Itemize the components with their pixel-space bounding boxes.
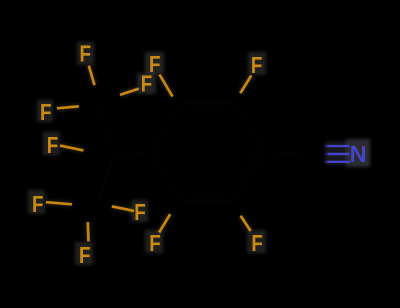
bond isopropyl C to upper CF3 C [98, 104, 114, 156]
nitrile triple bond, blue half: dark tapered left tips [325, 146, 329, 162]
svg-text:F: F [79, 41, 91, 67]
stub F4 (upper CF3 left F) [57, 106, 79, 108]
carbon skeleton (black on black, invisible): benzene ring [98, 103, 306, 204]
svg-text:F: F [251, 230, 263, 256]
svg-text:F: F [141, 71, 153, 97]
stub F5 (isopropyl C F) [60, 146, 83, 151]
svg-text:F: F [47, 132, 59, 158]
orange F-bond half stubs [46, 66, 251, 242]
faint halos under orange stubs (jpeg bloom) [46, 66, 251, 242]
bond ring to nitrile C [264, 152, 306, 154]
halo glow blocks (jpeg artifacts) [28, 42, 370, 265]
svg-text:F: F [149, 230, 161, 256]
svg-text:F: F [134, 199, 146, 225]
stub F1 (top CF3 F) [89, 66, 95, 86]
bond ring to isopropyl C [114, 152, 152, 156]
bond isopropyl C to lower CF3 C [98, 156, 114, 204]
svg-text:F: F [40, 99, 52, 125]
stub F9 (ring bottom-left F) [159, 214, 170, 232]
stub F8 (lower CF3 right F) [112, 206, 134, 211]
stub F2 (ring top-left F) [160, 75, 173, 97]
stub F6 (lower CF3 left F) [46, 202, 72, 204]
nitrile triple bond, blue half [328, 146, 351, 162]
svg-text:F: F [251, 52, 263, 78]
stub F7 (lower CF3 bottom F) [86, 222, 89, 241]
svg-text:F: F [32, 191, 44, 217]
svg-text:F: F [79, 242, 91, 268]
svg-text:N: N [350, 141, 367, 167]
F atom labels (orange) [32, 41, 263, 268]
stub F10 (ring top-right F) [240, 76, 251, 94]
stub F11 (ring bottom-right F) [241, 216, 251, 231]
stub F3 (upper CF3 right F) [120, 89, 139, 95]
